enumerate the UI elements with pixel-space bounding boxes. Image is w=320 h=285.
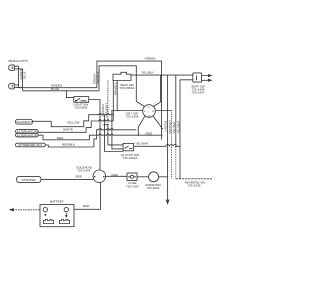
svg-text:RED: RED	[83, 204, 90, 208]
svg-text:HEADLIGHTS: HEADLIGHTS	[8, 59, 28, 63]
ground arrow left	[10, 209, 13, 211]
wire bundle ground line	[167, 75, 169, 200]
wire blue vertical from headlights	[16, 69, 22, 91]
wire key switch bottom-left diagonal	[138, 116, 145, 135]
battery negative arrow	[65, 213, 67, 217]
svg-text:GREEN: GREEN	[145, 57, 156, 61]
svg-text:725-1542: 725-1542	[187, 184, 200, 188]
wire solenoid to fuse	[106, 175, 127, 177]
svg-text:725-0893: 725-0893	[74, 106, 87, 110]
wire white staircase	[38, 120, 113, 133]
svg-text:725-3026: 725-3026	[146, 186, 159, 190]
wire magneto yellow staircase	[33, 114, 114, 127]
battery cell 1	[44, 220, 54, 224]
svg-text:725-1397: 725-1397	[126, 184, 139, 188]
wire seat box drop 2	[112, 80, 114, 121]
svg-text:RED: RED	[112, 173, 119, 177]
junction dot key row b	[111, 110, 112, 111]
svg-text:YELLOW: YELLOW	[67, 121, 80, 125]
wire key switch right	[155, 110, 171, 112]
connector arrow pin 2	[208, 79, 211, 81]
ground arrow	[166, 200, 169, 204]
wire green vertical from headlights	[16, 66, 18, 88]
bus link vertical a	[105, 115, 124, 152]
wire bundle yel/blk branch	[175, 75, 177, 147]
battery cell 2	[60, 220, 70, 224]
svg-text:RED: RED	[57, 136, 64, 140]
wire red/blk staircase	[45, 129, 136, 147]
light switch LS1 box	[74, 97, 89, 103]
fuse symbol lead right	[134, 176, 136, 178]
wire yel/wht clutch out with humps	[134, 144, 180, 146]
wire blue drop into light switch	[66, 91, 73, 98]
solenoid terminal right	[103, 176, 105, 178]
wire key L riser	[99, 66, 136, 102]
svg-text:YEL/BLK: YEL/BLK	[141, 71, 154, 75]
svg-text:GREEN: GREEN	[164, 121, 168, 131]
wire bundle yel/blk branch dashed	[175, 147, 177, 179]
wire blue horizontal to light switch	[23, 90, 99, 92]
svg-text:STARTER: STARTER	[22, 178, 37, 182]
wire bundle red/wht upper dashed	[171, 111, 173, 148]
svg-text:RED/WHT: RED/WHT	[105, 103, 109, 117]
junction dot key row	[113, 110, 114, 111]
key switch KS1	[143, 105, 156, 118]
svg-text:BLUE: BLUE	[51, 87, 59, 91]
svg-text:RED: RED	[76, 174, 83, 178]
svg-text:AFTERFIRE SOL: AFTERFIRE SOL	[18, 143, 43, 147]
headlight lamp 1	[9, 65, 17, 71]
svg-text:725-3164A: 725-3164A	[122, 156, 138, 160]
bus vertical key row to clutch	[112, 111, 123, 149]
wire key switch top-right diagonal	[154, 75, 161, 106]
wire key switch bottom-right diagonal	[153, 116, 163, 129]
wire light switch output drop	[89, 100, 100, 171]
solenoid terminal left	[94, 176, 96, 178]
afterfire solenoid box	[16, 143, 46, 147]
seat interlock box	[113, 72, 131, 80]
junction dot ammeter out	[167, 176, 168, 177]
starter solenoid body	[93, 170, 106, 183]
battery plus mark	[44, 214, 46, 216]
wire battery to solenoid	[74, 183, 101, 210]
wire key switch top-left diagonal	[136, 102, 144, 107]
starter box	[17, 176, 42, 182]
battery box	[40, 205, 74, 227]
wire connector return	[180, 80, 193, 179]
connector CN1 inner link	[196, 76, 198, 81]
junction dot yel/blk b	[175, 75, 176, 76]
svg-text:725-1407: 725-1407	[191, 91, 204, 95]
wire green horizontal to riser	[19, 87, 97, 89]
wire yel/blk top to connector	[131, 74, 193, 76]
wire fuse to ammeter	[137, 176, 149, 178]
fuse symbol body	[130, 175, 134, 178]
wire key switch left	[113, 110, 143, 112]
wire reverse switch	[176, 178, 213, 180]
svg-text:725-1563A: 725-1563A	[119, 86, 135, 90]
junction dot clutch row	[110, 144, 111, 145]
svg-text:ALTERNATOR: ALTERNATOR	[17, 133, 38, 137]
junction dot red wire	[138, 135, 139, 136]
wire seat box drop dashed	[107, 80, 109, 124]
alternator box 2	[16, 133, 39, 137]
junction dot seat drop	[107, 124, 108, 125]
connector CN1 top right	[193, 73, 202, 82]
wire red stub row	[103, 124, 108, 126]
svg-text:MAGNETO: MAGNETO	[16, 120, 32, 124]
wire battery left ground	[13, 209, 40, 211]
svg-text:725-1396: 725-1396	[125, 115, 138, 119]
wire red staircase long	[38, 134, 162, 140]
battery terminal negative	[64, 207, 68, 211]
svg-text:RED/BLK: RED/BLK	[62, 143, 76, 147]
light switch symbol pivot	[75, 100, 76, 101]
alternator box 1	[16, 130, 39, 134]
fuse symbol lead left	[128, 176, 130, 178]
svg-text:725-1426: 725-1426	[77, 169, 90, 173]
wire seat box drop 3	[116, 80, 118, 110]
svg-text:YEL/WHT: YEL/WHT	[135, 142, 149, 146]
battery terminal positive	[43, 207, 47, 211]
connector CN1 pin wires	[202, 76, 209, 81]
clutch switch symbol blade	[125, 146, 133, 149]
junction dot yellow row	[104, 114, 105, 115]
magneto box	[16, 120, 33, 125]
wire bundle red/wht lower dashed	[171, 147, 173, 179]
fuse box	[127, 173, 137, 181]
svg-text:BLUE: BLUE	[23, 71, 27, 79]
light switch symbol blade	[76, 98, 87, 100]
wire solenoid feed dot	[99, 126, 100, 127]
bus vertical from seat drop to clutch	[108, 125, 123, 145]
wire starter to solenoid	[41, 178, 93, 180]
wire ammeter out	[159, 176, 168, 178]
wire green riser to top run	[97, 61, 162, 140]
clutch switch box	[123, 143, 134, 150]
svg-text:WHITE: WHITE	[63, 128, 73, 132]
svg-text:M: M	[148, 116, 150, 118]
junction dot yel/blk a	[167, 75, 168, 76]
svg-text:YEL/WHT: YEL/WHT	[176, 120, 180, 133]
connector arrow pin 1	[208, 75, 211, 77]
junction dot key row c	[117, 110, 118, 111]
ammeter	[149, 172, 159, 182]
svg-text:BATTERY: BATTERY	[50, 200, 64, 204]
headlight lamp 2	[9, 83, 17, 89]
